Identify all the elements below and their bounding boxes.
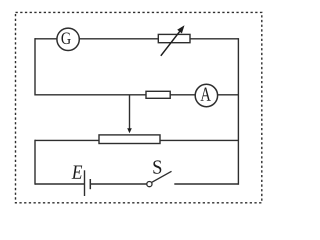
second wire left segment <box>35 94 146 96</box>
wire switch to bottom-right corner <box>174 183 238 185</box>
wire resistor to ammeter <box>170 94 195 96</box>
label E (battery) <box>72 165 83 178</box>
battery E <box>85 170 91 196</box>
wire G to rheostat <box>79 38 158 40</box>
wire ammeter to right vertical <box>218 94 239 96</box>
variable resistor (rheostat) <box>158 25 190 56</box>
wire top-left to G <box>35 38 57 40</box>
right vertical wire <box>237 38 239 185</box>
switch S <box>147 171 172 186</box>
ammeter A <box>195 84 217 106</box>
bottom wire to battery <box>35 183 85 185</box>
wire potentiometer to right vertical <box>160 139 238 141</box>
galvanometer G <box>57 28 79 50</box>
left vertical wire (top loop) <box>34 38 36 95</box>
left vertical wire (bottom loop) <box>34 140 36 185</box>
wiper wire with down arrow <box>127 95 132 133</box>
resistor R <box>146 91 170 98</box>
wire battery to switch <box>90 183 147 185</box>
wire left to potentiometer <box>35 139 99 141</box>
label S (switch) <box>153 160 161 173</box>
wire rheostat to top-right corner <box>190 38 238 40</box>
potentiometer track <box>99 135 160 144</box>
